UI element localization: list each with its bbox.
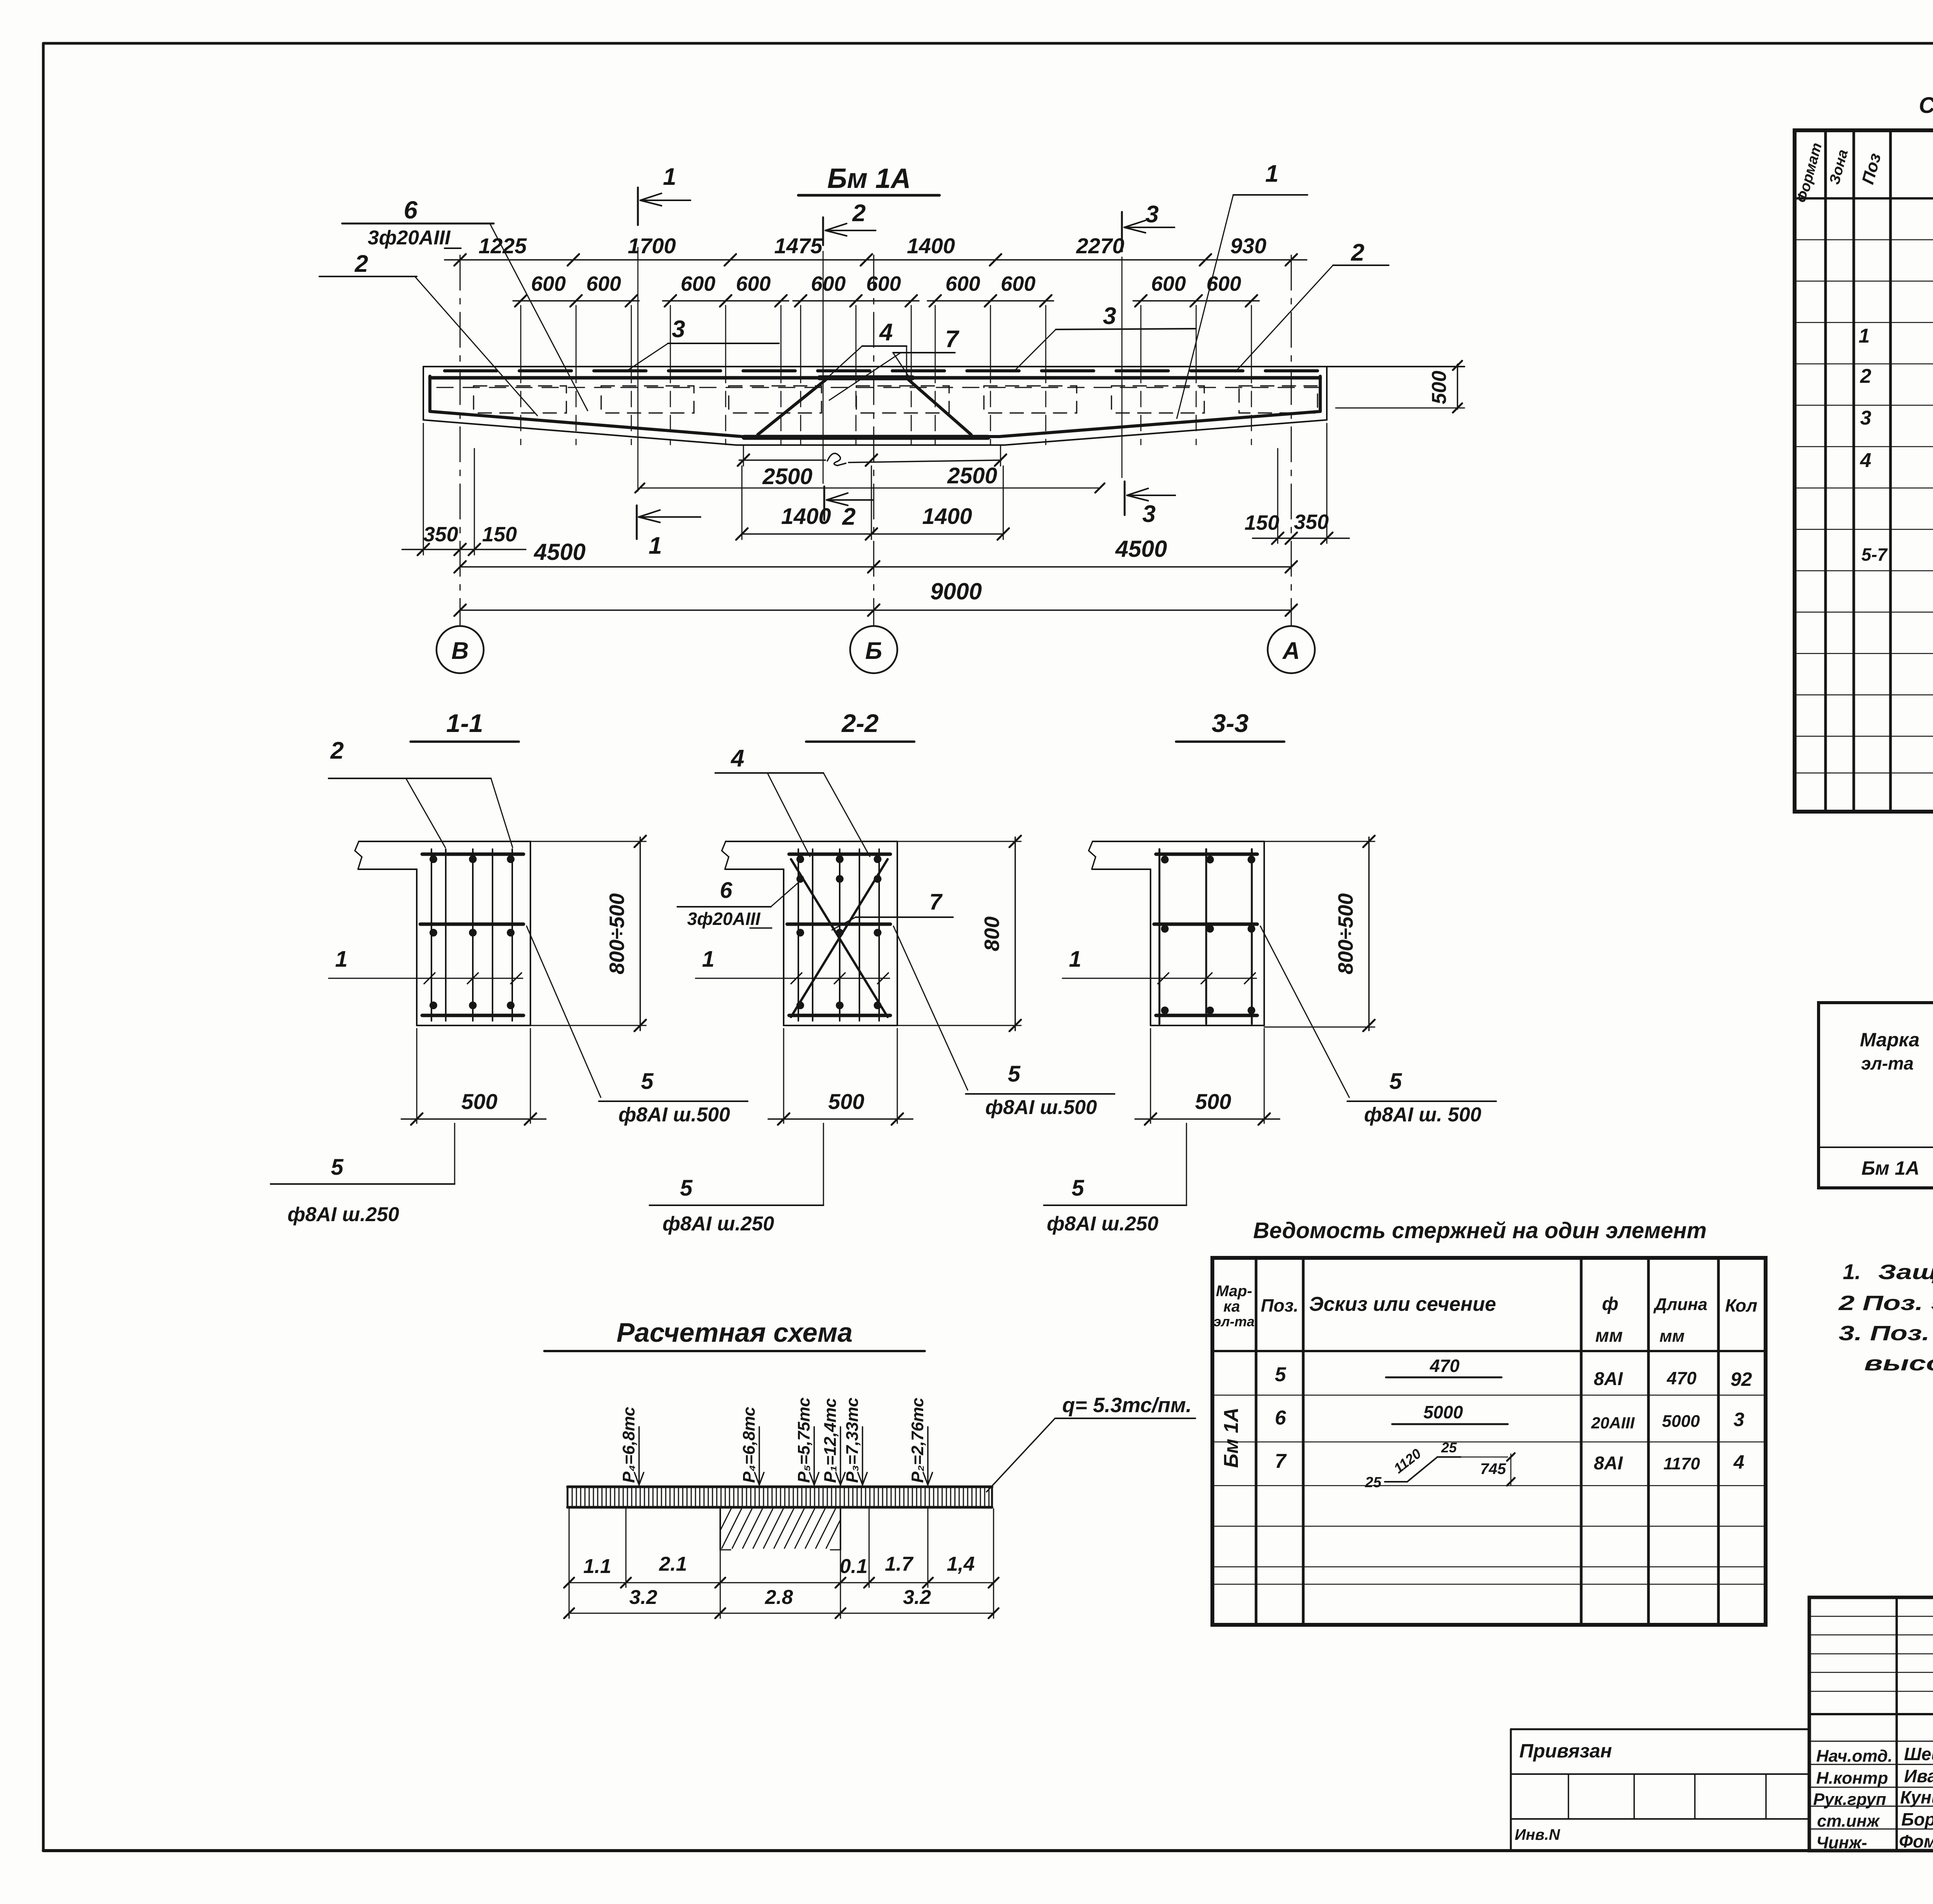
svg-text:P₄=6,8тс: P₄=6,8тс [740, 1407, 759, 1483]
title block left grid thin rows [1809, 1616, 1933, 1829]
section 2-2 bar dots [796, 855, 881, 1009]
section 2-2 concrete outline [722, 841, 897, 1025]
svg-text:0.1: 0.1 [840, 1555, 868, 1578]
specification row 1 [1859, 319, 1933, 347]
specification row 2 [1860, 355, 1933, 387]
section 1-1 leader 5 sh.500 [527, 926, 748, 1126]
specification table grid [1795, 130, 1933, 812]
label 3 left-middle [626, 316, 779, 371]
svg-text:Марка: Марка [1860, 1029, 1919, 1051]
mesh dashes under top [445, 369, 1322, 372]
section 2-2 height dim [897, 836, 1021, 1031]
svg-text:P₁=12,4тс: P₁=12,4тс [821, 1398, 840, 1483]
svg-text:1-1: 1-1 [446, 709, 483, 737]
section mark 1 bottom [637, 505, 701, 559]
section cut through-lines [638, 247, 1122, 491]
distributed load label q [987, 1394, 1195, 1492]
svg-text:1: 1 [702, 947, 714, 972]
section mark 1 top [638, 164, 690, 225]
svg-text:В: В [452, 638, 469, 664]
label 7 [829, 326, 960, 400]
svg-text:2.1: 2.1 [659, 1553, 687, 1575]
label 6 3ф20АIII [342, 196, 588, 411]
section mark 3 top [1122, 201, 1174, 251]
svg-text:Н.контр: Н.контр [1816, 1769, 1888, 1788]
svg-text:P₄=6,8тс: P₄=6,8тс [619, 1407, 638, 1483]
section 3-3 rebar cage [1154, 849, 1257, 1024]
beam outline [423, 367, 1464, 445]
svg-text:1,4: 1,4 [947, 1553, 975, 1575]
svg-text:3: 3 [1142, 501, 1156, 527]
svg-text:3ф20АIII: 3ф20АIII [368, 227, 451, 249]
scheme extension lines [569, 1509, 994, 1618]
dashed line of cages [437, 387, 1322, 388]
svg-text:600: 600 [680, 272, 715, 295]
svg-text:1: 1 [663, 164, 676, 190]
svg-text:5000: 5000 [1423, 1402, 1463, 1422]
section 2-2 cross diagonals pos.4 [791, 859, 888, 1017]
svg-text:2: 2 [842, 503, 856, 530]
section 2-2 width dim 500 [768, 1029, 913, 1125]
svg-text:600: 600 [866, 272, 901, 295]
svg-text:3.2: 3.2 [903, 1586, 931, 1609]
section 1-1 height dim [530, 836, 646, 1031]
section 2-2 leader 5 sh.500 [893, 926, 1115, 1119]
svg-text:5-7: 5-7 [1861, 544, 1888, 565]
svg-text:20АIII: 20АIII [1591, 1414, 1635, 1432]
svg-text:1400: 1400 [922, 504, 972, 529]
svg-text:25: 25 [1441, 1440, 1457, 1455]
dim 2500 2500 with break [738, 445, 1006, 489]
svg-text:5: 5 [1072, 1175, 1084, 1201]
svg-text:Инв.N: Инв.N [1515, 1826, 1560, 1843]
load arrows and labels [619, 1397, 932, 1485]
note 1 [1843, 1259, 1933, 1284]
svg-text:3. Поз. 7 приварить к продольн: 3. Поз. 7 приварить к продольным стержня… [1839, 1322, 1933, 1345]
signature rows [1813, 1744, 1933, 1852]
specification headers [1794, 141, 1933, 205]
svg-text:Б: Б [865, 638, 882, 664]
svg-text:Привязан: Привязан [1519, 1740, 1612, 1762]
beam end verticals inner [430, 376, 1320, 411]
svg-text:1: 1 [1859, 325, 1870, 347]
dim 1400 1400 [736, 466, 1009, 540]
svg-text:8АI: 8АI [1594, 1453, 1623, 1474]
svg-text:600: 600 [945, 272, 980, 295]
dim 9000 [454, 578, 1297, 616]
svg-text:Расчетная схема: Расчетная схема [617, 1317, 853, 1348]
svg-text:P₅=5,75тс: P₅=5,75тс [794, 1397, 813, 1483]
svg-text:3: 3 [1103, 303, 1116, 329]
svg-text:эл-та: эл-та [1861, 1053, 1914, 1073]
svg-text:1475: 1475 [774, 234, 823, 258]
section 3-3 height dim [1264, 836, 1375, 1031]
top dimension line 1225/1700/1475/1400/2270/930 [445, 234, 1307, 266]
svg-text:1.: 1. [1843, 1259, 1861, 1284]
svg-text:ф8АI ш.250: ф8АI ш.250 [663, 1213, 774, 1235]
svg-text:Длина: Длина [1653, 1295, 1707, 1314]
section 2-2 leader 5 sh.250 [649, 1123, 823, 1235]
steel takeoff data row [1861, 1156, 1933, 1181]
svg-text:высота шва hш.= 4мм: высота шва hш.= 4мм [1864, 1352, 1933, 1375]
bent bar diagonals pos.7 [758, 380, 971, 435]
svg-text:3: 3 [672, 316, 685, 343]
span line between cut marks [635, 483, 1105, 493]
svg-text:мм: мм [1659, 1327, 1684, 1346]
svg-text:600: 600 [531, 272, 566, 295]
dim 150 350 right [1244, 423, 1349, 544]
svg-text:Кол: Кол [1725, 1295, 1757, 1315]
grid bubble Б [850, 626, 897, 673]
design scheme title [544, 1317, 925, 1351]
section 2-2 rebar cage [787, 849, 890, 1021]
label 4 [827, 319, 907, 378]
grid bubble А [1268, 626, 1315, 673]
svg-text:800: 800 [980, 916, 1004, 951]
svg-text:8АI: 8АI [1594, 1369, 1623, 1389]
section mark 3 bottom [1125, 481, 1175, 527]
svg-text:3: 3 [1145, 201, 1159, 228]
svg-text:Кунцевич: Кунцевич [1900, 1787, 1933, 1807]
svg-text:Мар-: Мар- [1216, 1283, 1252, 1300]
specification row 5-7 [1861, 529, 1933, 571]
svg-text:5: 5 [1389, 1069, 1402, 1094]
svg-text:эл-та: эл-та [1214, 1314, 1255, 1329]
svg-text:2: 2 [852, 200, 866, 227]
svg-text:9000: 9000 [930, 578, 982, 604]
svg-text:1: 1 [1265, 160, 1278, 187]
svg-text:500: 500 [1195, 1089, 1231, 1114]
bar schedule row 5 [1275, 1356, 1752, 1390]
bar schedule row 6 [1275, 1402, 1745, 1432]
svg-text:7: 7 [945, 326, 960, 353]
dim 4500 4500 [454, 536, 1297, 573]
svg-text:Защитный слой бетона для рабоч: Защитный слой бетона для рабочей арматур… [1878, 1261, 1933, 1284]
top longitudinal rebar (thick) [430, 376, 1320, 380]
svg-text:ст.инж: ст.инж [1817, 1812, 1880, 1831]
svg-text:4: 4 [879, 319, 893, 346]
steel takeoff headers [1860, 1009, 1933, 1147]
specification row 3 [1860, 398, 1933, 429]
svg-text:Эскиз или сечение: Эскиз или сечение [1309, 1293, 1496, 1315]
section 1-1 leader 5 sh.250 [271, 1123, 455, 1226]
svg-text:6: 6 [404, 196, 418, 224]
svg-text:3ф20АIII: 3ф20АIII [687, 909, 760, 929]
svg-text:5: 5 [680, 1175, 693, 1201]
svg-text:Спецификация элементов монолит: Спецификация элементов монолитной констр… [1919, 93, 1933, 118]
svg-text:ка: ка [1223, 1298, 1240, 1315]
section 1-1 concrete outline [355, 841, 530, 1025]
section 2-2 label 6 3ф20АIII [677, 878, 799, 929]
svg-text:5: 5 [1275, 1363, 1287, 1386]
svg-text:Иванов: Иванов [1904, 1766, 1933, 1786]
svg-text:150: 150 [1244, 511, 1279, 534]
svg-text:2: 2 [1860, 365, 1872, 387]
scheme dims row 1 [564, 1553, 999, 1588]
svg-text:3-3: 3-3 [1212, 709, 1248, 737]
svg-text:3.2: 3.2 [629, 1586, 657, 1609]
label 2 right [1235, 239, 1389, 372]
svg-text:930: 930 [1230, 234, 1266, 258]
section mark 2 bottom [824, 486, 873, 530]
svg-text:5000: 5000 [1662, 1412, 1700, 1431]
section 2-2 title [806, 709, 914, 742]
svg-text:ф8АI ш.250: ф8АI ш.250 [288, 1203, 399, 1226]
section 1-1 leader 2 [329, 737, 513, 848]
middle support hatch [720, 1509, 840, 1550]
svg-text:6: 6 [720, 878, 733, 903]
svg-text:500: 500 [1428, 371, 1451, 404]
svg-text:q= 5.3тс/пм.: q= 5.3тс/пм. [1062, 1394, 1192, 1417]
svg-text:4500: 4500 [534, 539, 585, 565]
svg-text:2: 2 [1351, 239, 1364, 266]
section mark 2 top [823, 200, 876, 245]
svg-text:4: 4 [1860, 449, 1872, 472]
svg-text:Нач.отд.: Нач.отд. [1816, 1747, 1892, 1766]
svg-text:3: 3 [1860, 407, 1872, 429]
svg-text:5: 5 [1008, 1061, 1021, 1087]
svg-text:4500: 4500 [1115, 536, 1167, 562]
dim 350 150 left [402, 423, 526, 555]
svg-text:350: 350 [1294, 510, 1329, 534]
svg-text:600: 600 [1151, 272, 1186, 295]
svg-text:1: 1 [335, 947, 348, 972]
svg-text:7: 7 [929, 889, 943, 914]
svg-text:Ведомость стержней на один эле: Ведомость стержней на один элемент [1253, 1218, 1707, 1243]
section 1-1 title [411, 709, 519, 742]
svg-text:4: 4 [730, 745, 744, 772]
privyazan box [1511, 1729, 1809, 1851]
svg-text:4: 4 [1733, 1451, 1744, 1473]
svg-text:3: 3 [1734, 1409, 1744, 1430]
svg-text:2500: 2500 [762, 464, 812, 489]
grid line B [460, 255, 461, 626]
label 3 right [1015, 303, 1196, 370]
grid bubble В [436, 626, 484, 673]
svg-text:745: 745 [1480, 1460, 1506, 1477]
svg-text:6: 6 [1275, 1407, 1287, 1429]
svg-text:1: 1 [1069, 947, 1081, 972]
steel takeoff grid [1819, 1003, 1933, 1188]
svg-text:600: 600 [1001, 272, 1035, 295]
svg-text:150: 150 [482, 523, 517, 546]
svg-text:Поз.: Поз. [1261, 1295, 1298, 1315]
svg-text:ф8АI ш.500: ф8АI ш.500 [619, 1104, 730, 1126]
svg-text:P₂=2,76тс: P₂=2,76тс [908, 1398, 927, 1483]
svg-text:600: 600 [586, 272, 621, 295]
svg-text:мм: мм [1595, 1326, 1623, 1346]
svg-text:7: 7 [1275, 1450, 1287, 1472]
bottom rebar (thick) [430, 411, 1320, 437]
svg-text:А: А [1282, 638, 1300, 664]
section 2-2 label 7 [832, 889, 953, 930]
section 1-1 leader 1 [329, 947, 523, 984]
grid line Б [873, 255, 874, 626]
svg-text:Бм 1А: Бм 1А [827, 163, 911, 194]
section 1-1 bar dots [430, 855, 515, 1009]
svg-text:2-2: 2-2 [841, 709, 879, 737]
label 1 right [1177, 160, 1307, 418]
svg-text:Рук.груп: Рук.груп [1813, 1790, 1886, 1809]
svg-text:800÷500: 800÷500 [1334, 893, 1357, 974]
end depth dim 500 [1428, 361, 1462, 413]
scheme dims row 2 [564, 1586, 999, 1618]
stirrup position extension lines [521, 305, 1251, 445]
svg-text:92: 92 [1730, 1368, 1752, 1390]
svg-text:600: 600 [1206, 272, 1241, 295]
svg-text:ф8АI ш.500: ф8АI ш.500 [985, 1096, 1097, 1119]
svg-text:1400: 1400 [907, 234, 955, 258]
600 spacing dimension rows [513, 272, 1259, 307]
svg-text:1.1: 1.1 [583, 1555, 611, 1578]
title block frame [1809, 1597, 1933, 1851]
bar schedule row 7 bent bar [1275, 1440, 1744, 1491]
design scheme beam bar [568, 1487, 992, 1507]
svg-text:1700: 1700 [628, 234, 676, 258]
svg-text:2: 2 [355, 251, 368, 277]
svg-text:Шейко: Шейко [1904, 1744, 1933, 1764]
svg-text:2: 2 [330, 737, 344, 764]
svg-text:470: 470 [1430, 1356, 1460, 1376]
svg-text:Фоменко: Фоменко [1899, 1831, 1933, 1851]
svg-text:500: 500 [828, 1089, 864, 1114]
section 1-1 rebar cage [420, 849, 523, 1021]
svg-text:ф8АI ш.250: ф8АI ш.250 [1047, 1213, 1159, 1235]
svg-text:2270: 2270 [1076, 234, 1125, 258]
svg-text:25: 25 [1365, 1474, 1382, 1491]
svg-text:350: 350 [423, 523, 458, 546]
section 3-3 concrete outline [1089, 841, 1264, 1025]
svg-text:1: 1 [649, 532, 662, 559]
label 2 left [319, 251, 537, 416]
svg-text:5: 5 [641, 1069, 654, 1094]
section 3-3 bar dots [1161, 856, 1255, 1014]
section 3-3 leader 1 [1062, 947, 1256, 984]
svg-text:ф8АI ш. 500: ф8АI ш. 500 [1364, 1104, 1481, 1126]
section 2-2 leader 1 [695, 947, 890, 984]
section 3-3 width dim 500 [1135, 1029, 1280, 1125]
svg-text:800÷500: 800÷500 [605, 893, 629, 974]
svg-text:1225: 1225 [479, 234, 527, 258]
svg-text:Боровик: Боровик [1901, 1809, 1933, 1829]
svg-text:P₃=7,33тс: P₃=7,33тс [843, 1397, 862, 1483]
svg-text:2 Поз. 5 приварить в пересечен: 2 Поз. 5 приварить в пересечении с плоск… [1838, 1292, 1933, 1315]
grid line A [1291, 255, 1292, 626]
svg-text:600: 600 [736, 272, 770, 295]
svg-text:500: 500 [461, 1089, 497, 1114]
svg-text:600: 600 [811, 272, 845, 295]
section 3-3 leader 5 sh.250 [1044, 1123, 1186, 1235]
section 3-3 title [1176, 709, 1284, 742]
svg-text:Чинж-: Чинж- [1816, 1833, 1867, 1852]
svg-text:Бм 1А: Бм 1А [1220, 1408, 1243, 1468]
svg-text:2.8: 2.8 [765, 1586, 793, 1609]
section 2-2 leader 4 [715, 745, 870, 856]
dashed cage boxes [474, 386, 1318, 413]
bar schedule headers [1214, 1283, 1757, 1346]
beam title Бм 1А [798, 163, 939, 195]
svg-text:470: 470 [1667, 1368, 1697, 1388]
svg-text:ф: ф [1602, 1294, 1618, 1314]
svg-text:2500: 2500 [947, 463, 997, 488]
svg-text:1.7: 1.7 [885, 1553, 914, 1575]
specification row 4 [1860, 442, 1933, 472]
svg-text:Бм 1А: Бм 1А [1861, 1157, 1919, 1179]
section 3-3 leader 5 sh.500 [1260, 926, 1496, 1126]
section 1-1 width dim 500 [401, 1029, 546, 1125]
svg-text:1170: 1170 [1664, 1454, 1700, 1473]
bar schedule table grid [1212, 1258, 1766, 1625]
svg-text:5: 5 [331, 1155, 344, 1180]
